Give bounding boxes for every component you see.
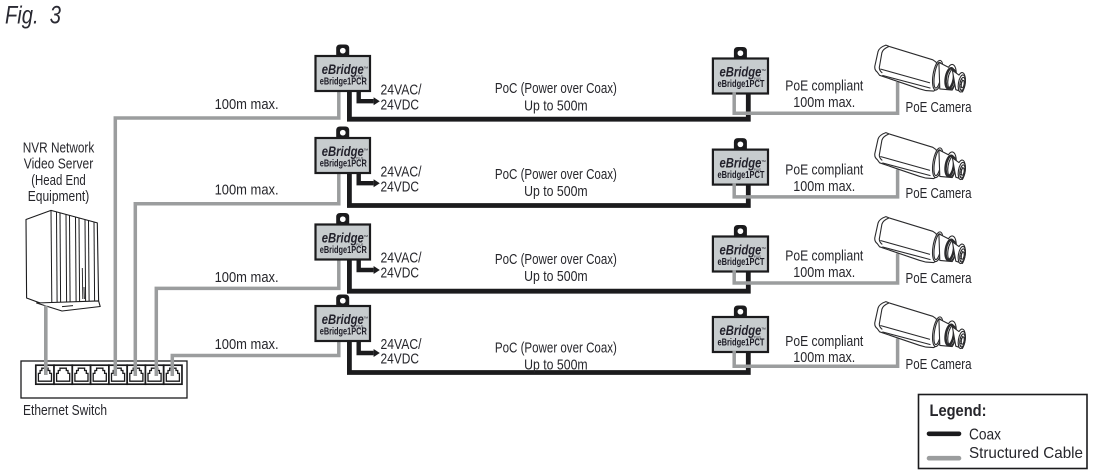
row 4 structured cable PCT to camera [734, 339, 897, 367]
svg-text:Legend:: Legend: [930, 401, 987, 420]
row 2 structured cable switch to eBridge1PCR [135, 172, 338, 376]
svg-text:100m max.: 100m max. [793, 178, 855, 195]
row 4 coax run PCR to PCT [349, 340, 748, 373]
device eBridge1PCR [316, 45, 371, 92]
svg-text:Coax: Coax [969, 427, 1001, 444]
legend coax sample line [929, 431, 959, 436]
svg-text:Up to 500m: Up to 500m [524, 97, 588, 114]
svg-text:100m max.: 100m max. [215, 182, 279, 199]
label NVR Network Video Server (Head End Equipment) [23, 139, 95, 205]
row 3 structured cable switch to eBridge1PCR [156, 259, 338, 377]
svg-text:PoE Camera: PoE Camera [906, 185, 973, 202]
row 1 PoE camera icon [875, 45, 967, 92]
svg-text:eBridge1PCT: eBridge1PCT [717, 257, 764, 268]
svg-text:™: ™ [761, 327, 766, 333]
svg-text:Equipment): Equipment) [28, 188, 90, 205]
svg-text:Structured Cable: Structured Cable [969, 445, 1083, 462]
svg-text:PoE compliant: PoE compliant [785, 78, 864, 95]
svg-text:24VDC: 24VDC [381, 264, 420, 281]
svg-text:100m max.: 100m max. [793, 349, 855, 366]
svg-text:100m max.: 100m max. [215, 336, 279, 353]
row 3 PoE camera icon [875, 217, 967, 264]
svg-text:PoE compliant: PoE compliant [785, 161, 864, 178]
svg-text:Ethernet Switch: Ethernet Switch [23, 402, 107, 419]
device eBridge1PCT [713, 47, 768, 94]
svg-text:NVR Network: NVR Network [23, 139, 95, 156]
svg-text:™: ™ [363, 66, 368, 72]
svg-text:eBridge1PCT: eBridge1PCT [717, 170, 764, 181]
svg-text:™: ™ [363, 316, 368, 322]
row 1 coax run PCR to PCT [349, 90, 748, 119]
svg-text:PoC (Power over Coax): PoC (Power over Coax) [495, 80, 617, 97]
svg-text:Video Server: Video Server [24, 156, 94, 173]
svg-text:100m max.: 100m max. [793, 264, 855, 281]
svg-text:PoC (Power over Coax): PoC (Power over Coax) [495, 340, 617, 357]
row 2 structured cable PCT to camera [734, 170, 897, 197]
svg-text:(Head End: (Head End [31, 172, 86, 189]
svg-text:PoE Camera: PoE Camera [906, 270, 973, 287]
svg-text:eBridge1PCR: eBridge1PCR [320, 77, 368, 88]
svg-text:Up to 500m: Up to 500m [524, 268, 588, 285]
svg-text:eBridge1PCR: eBridge1PCR [320, 245, 368, 256]
row 3 structured cable PCT to camera [734, 254, 897, 284]
row 1 structured cable switch to eBridge1PCR [115, 90, 338, 376]
row 2 power arrow 24VAC/24VDC [359, 172, 374, 183]
svg-text:™: ™ [761, 247, 766, 253]
svg-text:eBridge1PCT: eBridge1PCT [717, 79, 764, 90]
svg-text:PoC (Power over Coax): PoC (Power over Coax) [495, 251, 617, 268]
row 4 power arrow 24VAC/24VDC [359, 340, 374, 353]
svg-text:™: ™ [363, 235, 368, 241]
row 3 power arrow 24VAC/24VDC [359, 259, 374, 271]
svg-text:24VDC: 24VDC [381, 97, 420, 114]
device eBridge1PCT [713, 138, 768, 185]
svg-text:™: ™ [363, 148, 368, 154]
row 2 PoE camera icon [875, 133, 967, 180]
svg-text:100m max.: 100m max. [215, 269, 279, 286]
svg-text:eBridge1PCT: eBridge1PCT [717, 338, 764, 349]
NVR server tower icon [26, 210, 100, 311]
device eBridge1PCT [713, 306, 768, 353]
svg-text:100m max.: 100m max. [215, 96, 279, 113]
row 4 structured cable switch to eBridge1PCR [172, 340, 338, 376]
ethernet switch [21, 361, 187, 398]
legend box [919, 395, 1088, 469]
row 1 structured cable PCT to camera [734, 82, 897, 113]
svg-text:Fig. 3: Fig. 3 [5, 2, 61, 30]
svg-text:100m max.: 100m max. [793, 94, 855, 111]
device eBridge1PCR [316, 127, 371, 174]
svg-text:PoC (Power over Coax): PoC (Power over Coax) [495, 166, 617, 183]
svg-text:™: ™ [761, 160, 766, 166]
svg-text:™: ™ [761, 69, 766, 75]
svg-text:PoE Camera: PoE Camera [906, 99, 973, 116]
svg-text:PoE compliant: PoE compliant [785, 333, 864, 350]
device eBridge1PCR [316, 213, 371, 260]
svg-text:eBridge1PCR: eBridge1PCR [320, 159, 368, 170]
row 3 coax run PCR to PCT [349, 259, 748, 292]
device eBridge1PCT [713, 225, 768, 272]
row 4 PoE camera icon [875, 302, 967, 349]
device eBridge1PCR [316, 295, 371, 342]
svg-text:24VDC: 24VDC [381, 351, 420, 368]
svg-text:PoE compliant: PoE compliant [785, 247, 864, 264]
svg-text:PoE Camera: PoE Camera [906, 356, 973, 373]
legend structured cable sample line [929, 456, 959, 461]
svg-text:Up to 500m: Up to 500m [524, 356, 588, 373]
svg-text:eBridge1PCR: eBridge1PCR [320, 327, 368, 338]
row 2 coax run PCR to PCT [349, 172, 748, 206]
svg-text:Up to 500m: Up to 500m [524, 183, 588, 200]
row 1 power arrow 24VAC/24VDC [359, 90, 374, 101]
svg-text:24VDC: 24VDC [381, 178, 420, 195]
structured cable server to switch [44, 306, 48, 376]
